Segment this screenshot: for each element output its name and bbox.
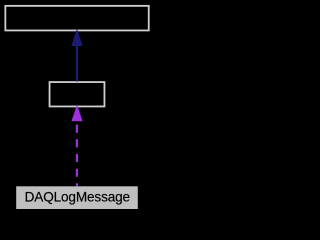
edge: dashed usage arrow (DAQLogMessage to middle box) [76,121,78,186]
svg-text:DAQLogMessage: DAQLogMessage [25,189,130,204]
node: intermediate class box (middle, label invisible) [50,82,105,106]
arrowhead: inheritance [71,29,82,46]
node: base class box (top, label invisible) [5,6,148,31]
edge: solid inheritance arrow (middle box to top box) [76,45,78,82]
arrowhead: usage [71,105,82,122]
node: DAQLogMessage (current class, gray fill) [16,186,138,209]
